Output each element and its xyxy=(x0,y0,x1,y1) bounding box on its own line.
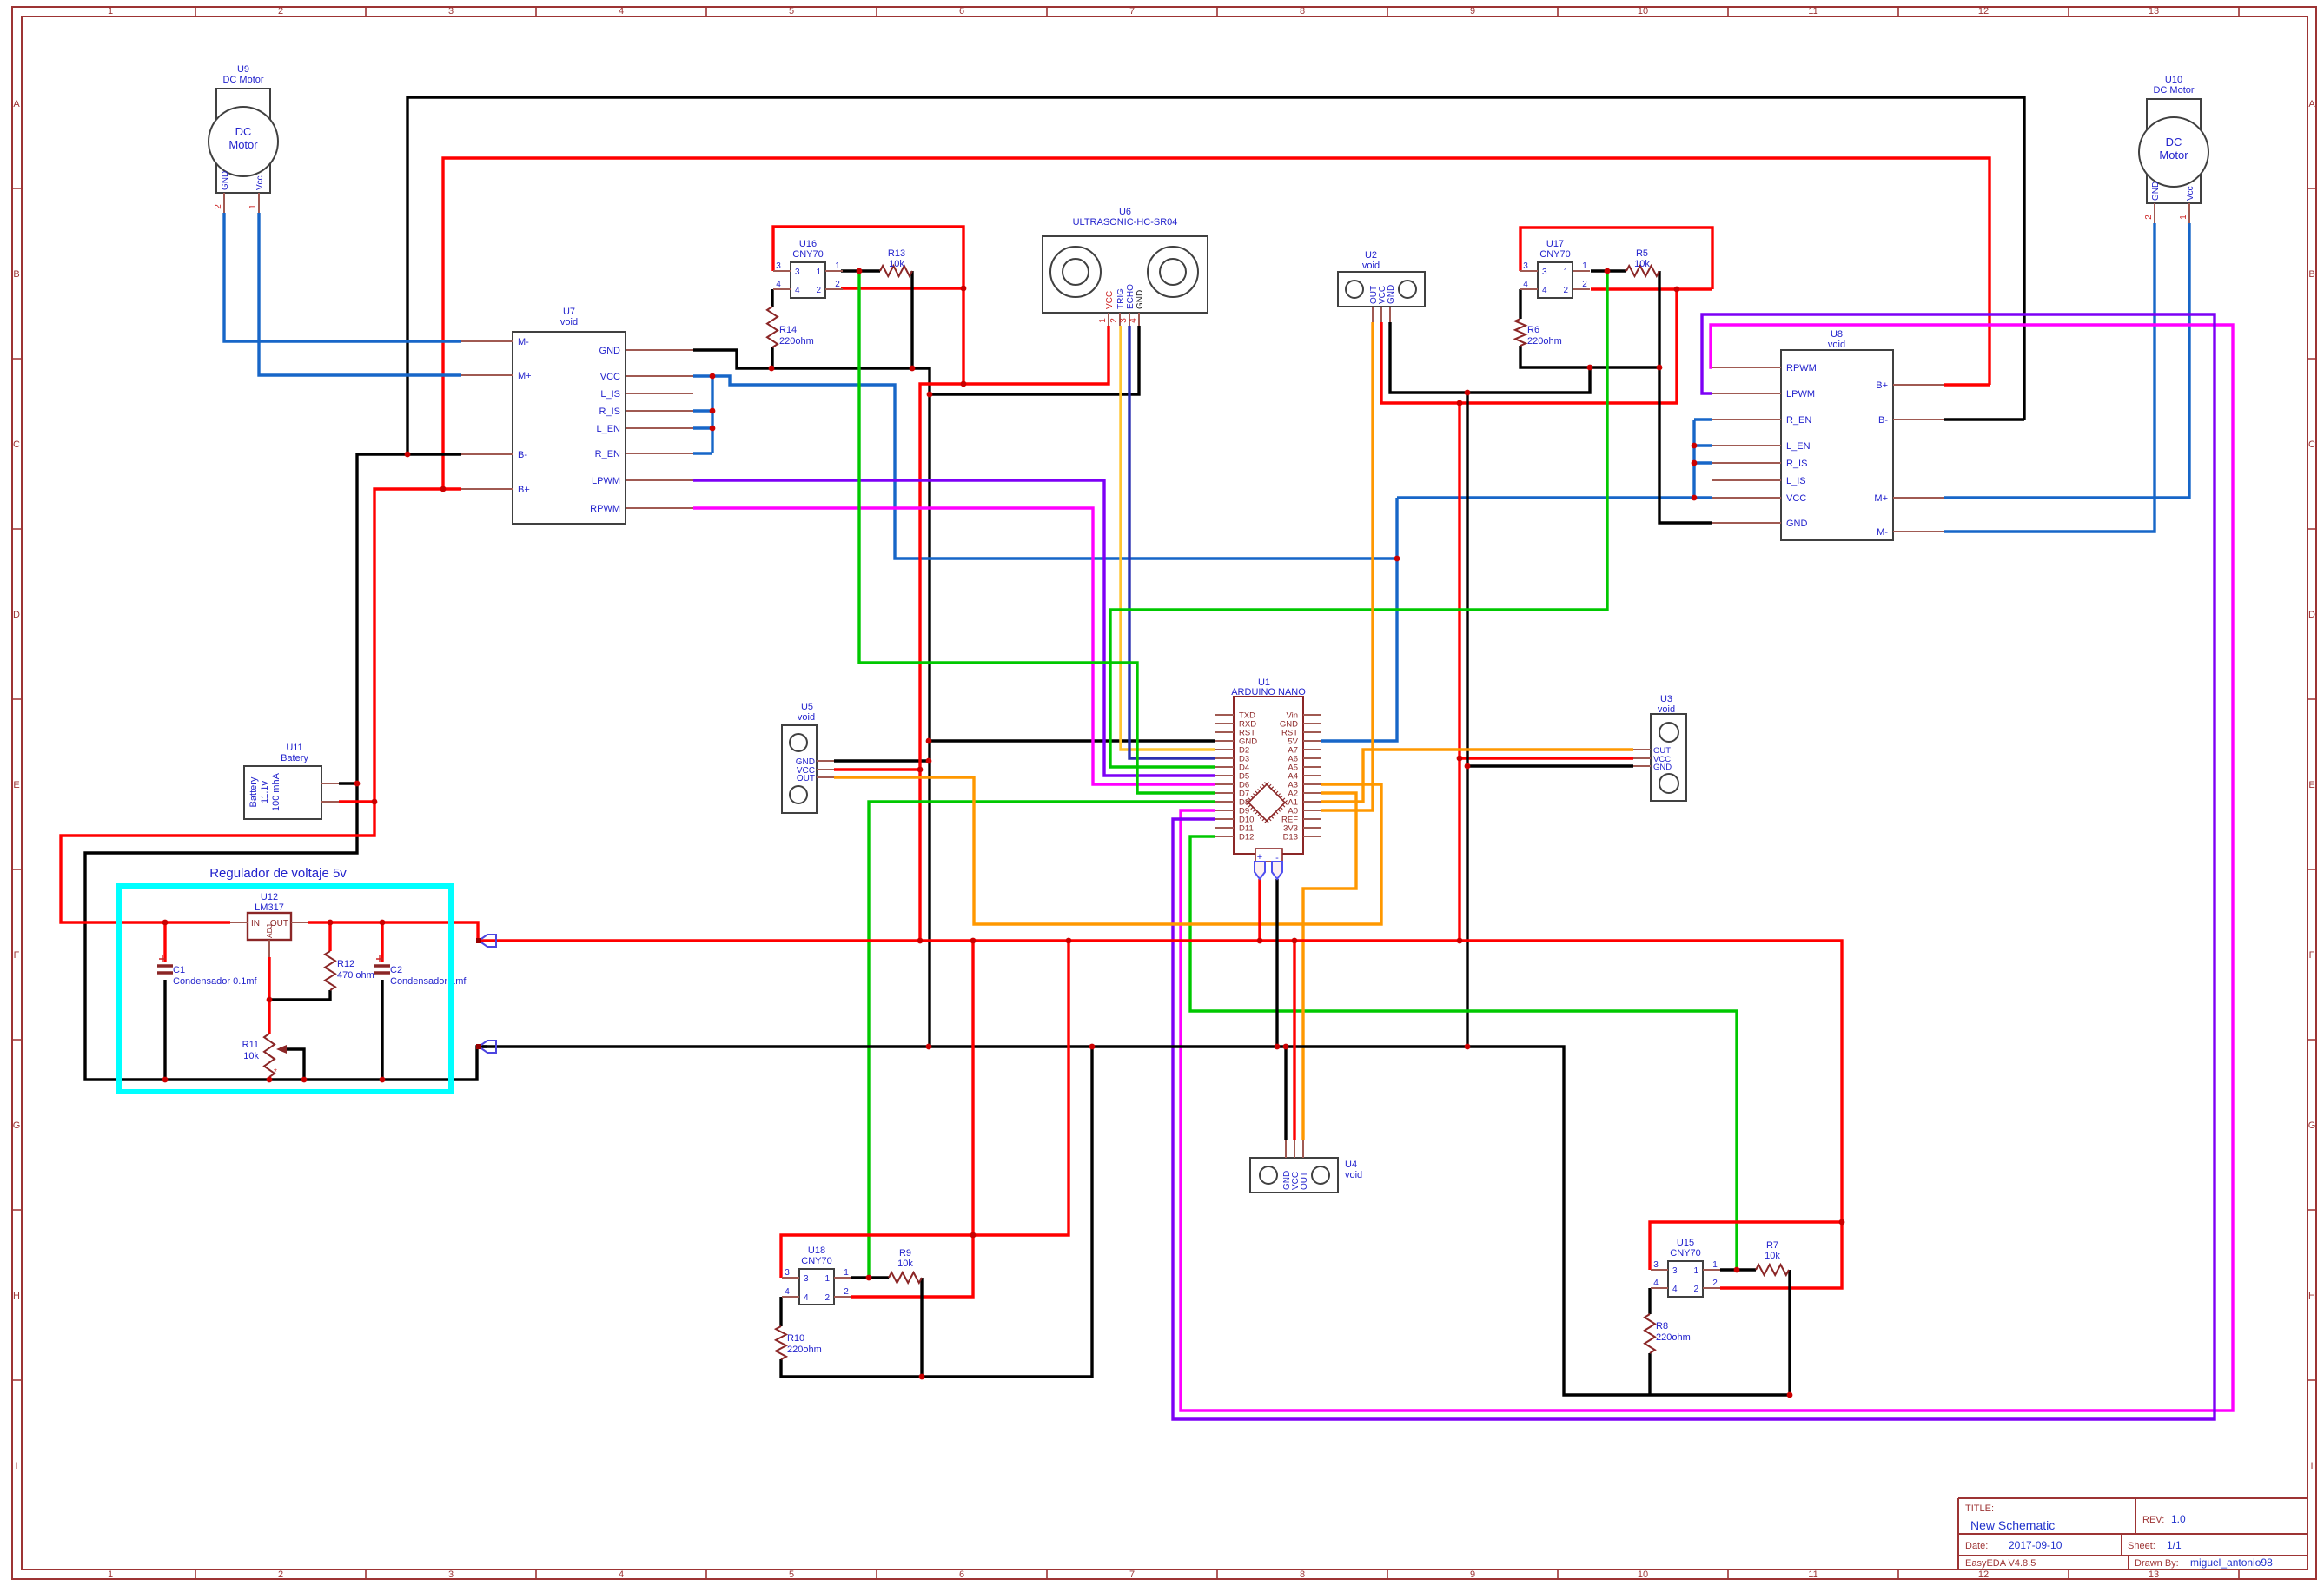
svg-text:4: 4 xyxy=(776,280,781,289)
dc motor U9 xyxy=(209,64,278,213)
svg-text:Vcc: Vcc xyxy=(2186,186,2195,201)
resistor R6 220ohm xyxy=(1515,319,1562,347)
wire U3 GND xyxy=(1467,764,1633,767)
svg-text:R13: R13 xyxy=(888,248,905,259)
svg-text:12: 12 xyxy=(1978,1569,1989,1580)
junction at 1930,333 xyxy=(1674,287,1680,293)
svg-text:R12: R12 xyxy=(337,959,354,969)
svg-text:10k: 10k xyxy=(889,259,904,269)
svg-text:RPWM: RPWM xyxy=(590,504,620,514)
svg-text:9: 9 xyxy=(1470,1569,1475,1580)
svg-text:B: B xyxy=(13,269,19,280)
svg-text:U12: U12 xyxy=(261,892,278,902)
svg-text:10k: 10k xyxy=(243,1051,259,1061)
svg-text:void: void xyxy=(1658,704,1675,715)
voltage regulator U12 LM317 xyxy=(230,892,308,957)
svg-text:R_EN: R_EN xyxy=(595,449,620,459)
junction at 820,493 xyxy=(710,426,716,432)
svg-text:CNY70: CNY70 xyxy=(1539,249,1570,260)
svg-text:U3: U3 xyxy=(1660,694,1672,704)
svg-text:void: void xyxy=(1828,340,1845,350)
wire LM317 OUT to 5V rail through port xyxy=(308,922,1842,1288)
svg-text:11: 11 xyxy=(1808,6,1817,17)
svg-text:2: 2 xyxy=(1109,318,1119,323)
svg-text:GND: GND xyxy=(1653,763,1672,772)
svg-text:U6: U6 xyxy=(1119,207,1131,217)
svg-text:R_IS: R_IS xyxy=(599,406,620,417)
wire TRIG to D2 xyxy=(1121,326,1215,750)
line sensor U4 xyxy=(1250,1140,1362,1193)
svg-text:D13: D13 xyxy=(1283,833,1298,843)
junction at 1910,423 xyxy=(1657,365,1663,371)
svg-text:void: void xyxy=(798,712,815,723)
svg-text:2: 2 xyxy=(278,1569,283,1580)
svg-text:1: 1 xyxy=(248,204,258,209)
junction at 1608,643 xyxy=(1394,556,1400,562)
junction at 1689,452 xyxy=(1465,390,1471,396)
svg-text:VCC: VCC xyxy=(1105,291,1115,309)
svg-text:Condensador 1mf: Condensador 1mf xyxy=(390,976,467,987)
wire U17 red supply loop xyxy=(1520,228,1712,289)
svg-text:5: 5 xyxy=(789,6,794,17)
potentiometer R11 10k xyxy=(242,1034,304,1077)
wire green U15 to D12 xyxy=(1190,836,1737,1270)
wire R12 bottom to ADJ node xyxy=(269,990,330,1000)
svg-text:13: 13 xyxy=(2149,1569,2159,1580)
svg-text:CNY70: CNY70 xyxy=(792,249,823,260)
svg-text:470 ohm: 470 ohm xyxy=(337,970,374,981)
svg-text:LPWM: LPWM xyxy=(1786,389,1815,400)
svg-text:3: 3 xyxy=(1542,268,1547,277)
wire U7 VCC blue bus ties (R_IS L_EN R_EN) xyxy=(693,376,712,453)
svg-text:DC Motor: DC Motor xyxy=(222,75,263,85)
svg-text:1: 1 xyxy=(1712,1260,1718,1270)
svg-text:L_IS: L_IS xyxy=(600,389,620,400)
junction at 1480,1205 xyxy=(1283,1044,1289,1050)
wire R10 leads and U18 ground to GND rail xyxy=(781,1047,1092,1377)
junction at 1059,1083 xyxy=(917,938,924,944)
svg-text:1: 1 xyxy=(816,268,821,277)
wire U8 B- jog xyxy=(1944,418,2024,420)
svg-text:U15: U15 xyxy=(1677,1238,1694,1248)
wire U16 pin2 to supply xyxy=(841,287,963,289)
svg-text:12: 12 xyxy=(1978,6,1989,17)
svg-text:11.1v: 11.1v xyxy=(260,780,270,803)
wire U8 VCC blue bus ties (R_EN L_EN R_IS) xyxy=(1694,420,1712,498)
svg-text:LPWM: LPWM xyxy=(592,476,620,486)
svg-text:U4: U4 xyxy=(1345,1160,1357,1170)
junction at 310,1151 xyxy=(267,997,273,1003)
wire R5 node xyxy=(1591,269,1626,272)
junction at 350,1243 xyxy=(301,1077,308,1083)
wire R12 top lead xyxy=(328,922,331,951)
svg-text:U16: U16 xyxy=(799,239,817,249)
svg-text:1: 1 xyxy=(1563,268,1568,277)
svg-text:220ohm: 220ohm xyxy=(1527,336,1562,347)
junction at 1059,886 xyxy=(917,767,924,773)
net port 5V output xyxy=(476,935,496,947)
svg-text:DC: DC xyxy=(235,125,252,138)
microcontroller U1 ARDUINO NANO xyxy=(1215,677,1321,879)
wire U4 GND drop xyxy=(1284,1047,1287,1140)
svg-text:1: 1 xyxy=(1582,261,1587,271)
svg-text:1: 1 xyxy=(1098,318,1108,323)
junction at 411,902 xyxy=(354,781,361,787)
svg-text:3: 3 xyxy=(1119,318,1129,323)
junction at 888,424 xyxy=(769,366,775,372)
svg-text:GND: GND xyxy=(1387,285,1396,304)
svg-text:EasyEDA V4.8.5: EasyEDA V4.8.5 xyxy=(1965,1558,2036,1569)
wire orange U2 OUT to A0 xyxy=(1321,322,1373,810)
wire orange A2 to U4 OUT xyxy=(1303,793,1356,1140)
wire U15 red supply loop xyxy=(1650,1222,1842,1270)
junction at 190,1243 xyxy=(162,1077,169,1083)
svg-text:10: 10 xyxy=(1638,1569,1648,1580)
wire R14 leads xyxy=(771,289,773,368)
svg-text:100 mhA: 100 mhA xyxy=(271,772,281,811)
wire M- U8 to U10 xyxy=(1944,223,2155,532)
wire U3 VCC xyxy=(1460,757,1633,759)
svg-text:2: 2 xyxy=(824,1293,830,1303)
optocoupler U18 (CNY70) xyxy=(782,1246,851,1305)
svg-text:DC: DC xyxy=(2166,135,2182,149)
wire red top rail (U7 B+ to U8 B+) xyxy=(443,158,1990,489)
svg-text:A: A xyxy=(2308,99,2315,109)
svg-text:1: 1 xyxy=(835,261,840,271)
svg-text:D: D xyxy=(2308,610,2315,620)
svg-text:VCC: VCC xyxy=(1786,493,1806,504)
junction at 1061,1585 xyxy=(919,1374,925,1380)
junction at 1109,332 xyxy=(961,286,967,292)
svg-text:ADJ: ADJ xyxy=(265,924,274,938)
resistor R10 220ohm xyxy=(776,1326,822,1359)
svg-text:2: 2 xyxy=(816,286,821,295)
svg-text:U17: U17 xyxy=(1546,239,1564,249)
svg-text:ECHO: ECHO xyxy=(1126,284,1136,309)
svg-text:2: 2 xyxy=(1563,286,1568,295)
junction at 1230,1083 xyxy=(1066,938,1072,944)
svg-text:4: 4 xyxy=(804,1293,809,1303)
svg-text:B+: B+ xyxy=(1876,380,1888,391)
wire GND rail (port to U15 ground) xyxy=(479,1047,1790,1395)
junction at 1069,853 xyxy=(926,738,932,744)
svg-text:OUT: OUT xyxy=(797,774,815,783)
svg-text:E: E xyxy=(13,780,19,790)
svg-text:D: D xyxy=(13,610,20,620)
svg-text:ULTRASONIC-HC-SR04: ULTRASONIC-HC-SR04 xyxy=(1073,217,1178,228)
svg-text:GND: GND xyxy=(1786,519,1808,529)
svg-text:8: 8 xyxy=(1300,6,1305,17)
svg-text:2: 2 xyxy=(1582,280,1587,289)
svg-text:M+: M+ xyxy=(1874,493,1888,504)
junction at 1680,873 xyxy=(1457,756,1463,762)
wire Arduino battery - to GND rail xyxy=(1275,879,1278,1047)
svg-text:R11: R11 xyxy=(242,1040,259,1050)
wire U17 pin2 to supply xyxy=(1591,287,1712,290)
svg-text:H: H xyxy=(13,1291,20,1301)
junction at 469,523 xyxy=(405,452,411,458)
junction at 1999,1462 xyxy=(1734,1267,1740,1273)
wire U4 VCC drop xyxy=(1293,941,1295,1140)
junction at 820,473 xyxy=(710,408,716,414)
junction at 380,1062 xyxy=(328,920,334,926)
junction at 1109,442 xyxy=(961,381,967,387)
svg-text:3: 3 xyxy=(448,6,454,17)
junction at 1257,1205 xyxy=(1089,1044,1096,1050)
svg-text:9: 9 xyxy=(1470,6,1475,17)
junction at 1689,1205 xyxy=(1465,1044,1471,1050)
wire battery + tap xyxy=(339,800,374,803)
svg-text:8: 8 xyxy=(1300,1569,1305,1580)
junction at 1830,423 xyxy=(1587,365,1593,371)
svg-text:R10: R10 xyxy=(787,1333,804,1344)
wire U8 B+ jog xyxy=(1944,383,1990,386)
wire R13 to ground rail xyxy=(910,271,913,368)
optocoupler U17 (CNY70) xyxy=(1520,239,1590,298)
svg-text:4: 4 xyxy=(1542,286,1547,295)
wire R11 bottom lead xyxy=(268,1077,270,1080)
wire R11 wiper to ground rail xyxy=(280,1049,304,1080)
svg-text:R_IS: R_IS xyxy=(1786,459,1807,469)
wire Arduino battery + to 5V rail xyxy=(1258,879,1261,941)
wire C1 bottom lead xyxy=(163,980,166,1080)
junction at 1470,1205 xyxy=(1275,1044,1281,1050)
wire C2 top lead xyxy=(381,922,383,962)
svg-text:2: 2 xyxy=(844,1287,849,1297)
svg-text:U10: U10 xyxy=(2165,75,2182,85)
optocoupler U16 (CNY70) xyxy=(773,239,843,298)
wire ECHO to D3 xyxy=(1129,326,1215,758)
wire M+ U8 to U10 xyxy=(1944,223,2189,498)
svg-text:R_EN: R_EN xyxy=(1786,415,1811,426)
svg-text:void: void xyxy=(1345,1170,1362,1180)
svg-text:3: 3 xyxy=(448,1569,454,1580)
svg-text:1: 1 xyxy=(1693,1266,1698,1276)
wire violet U8 LPWM loop to D10 xyxy=(1173,314,2215,1419)
svg-text:13: 13 xyxy=(2149,6,2159,17)
svg-text:2017-09-10: 2017-09-10 xyxy=(2009,1539,2062,1551)
svg-text:4: 4 xyxy=(785,1287,790,1297)
battery U11 xyxy=(244,743,339,819)
junction at 1070,454 xyxy=(927,392,933,398)
line sensor U2 xyxy=(1338,250,1425,322)
wire U16 red supply loop xyxy=(773,227,963,384)
svg-text:220ohm: 220ohm xyxy=(1656,1332,1691,1343)
svg-text:REV:: REV: xyxy=(2142,1515,2164,1525)
svg-text:2: 2 xyxy=(1693,1285,1698,1294)
svg-text:1.0: 1.0 xyxy=(2171,1513,2186,1525)
wire green U18 to D8 xyxy=(869,802,1215,1278)
svg-text:I: I xyxy=(15,1461,17,1471)
svg-text:B: B xyxy=(2308,269,2314,280)
svg-text:Vcc: Vcc xyxy=(255,175,265,190)
svg-text:Date:: Date: xyxy=(1965,1541,1988,1551)
wire R9 to U18 ground loop xyxy=(920,1278,923,1377)
wire R7 node xyxy=(1720,1268,1756,1271)
svg-text:Condensador 0.1mf: Condensador 0.1mf xyxy=(173,976,258,987)
svg-text:3: 3 xyxy=(776,261,781,271)
svg-text:U8: U8 xyxy=(1831,329,1843,340)
svg-text:Motor: Motor xyxy=(228,138,258,151)
svg-text:R7: R7 xyxy=(1766,1240,1778,1251)
svg-text:G: G xyxy=(2308,1120,2316,1131)
svg-text:6: 6 xyxy=(959,6,964,17)
resistor R12 470 ohm xyxy=(325,951,374,990)
svg-text:L_IS: L_IS xyxy=(1786,476,1806,486)
svg-text:H: H xyxy=(2308,1291,2315,1301)
svg-text:220ohm: 220ohm xyxy=(779,336,814,347)
svg-text:4: 4 xyxy=(619,6,624,17)
svg-text:*: * xyxy=(274,1067,277,1077)
svg-text:R5: R5 xyxy=(1636,248,1648,259)
svg-text:IN: IN xyxy=(251,919,260,928)
svg-text:C2: C2 xyxy=(390,965,402,975)
wire violet LPWM U7 to D5 xyxy=(693,480,1215,776)
svg-text:4: 4 xyxy=(1653,1279,1659,1288)
svg-text:B-: B- xyxy=(1878,415,1888,426)
wire R9 node xyxy=(851,1276,889,1279)
svg-text:ARDUINO NANO: ARDUINO NANO xyxy=(1231,687,1306,697)
svg-text:New Schematic: New Schematic xyxy=(1970,1518,2055,1532)
junction at 310,1243 xyxy=(267,1077,273,1083)
resistor R5 10k xyxy=(1626,248,1659,276)
svg-text:G: G xyxy=(13,1120,21,1131)
junction at 440,1243 xyxy=(380,1077,386,1083)
wire magenta RPWM U7 to D6 xyxy=(693,508,1215,784)
svg-text:C: C xyxy=(2308,439,2315,450)
svg-text:7: 7 xyxy=(1129,6,1135,17)
svg-text:4: 4 xyxy=(1672,1285,1678,1294)
junction at 1050,424 xyxy=(910,366,916,372)
junction at 190,1062 xyxy=(162,920,169,926)
svg-text:U5: U5 xyxy=(801,702,813,712)
svg-text:CNY70: CNY70 xyxy=(801,1256,831,1266)
svg-text:L_EN: L_EN xyxy=(596,424,620,434)
regulator highlight box (cyan) xyxy=(119,886,451,1092)
wire U18 red supply loop xyxy=(781,941,1069,1278)
svg-text:Drawn By:: Drawn By: xyxy=(2135,1558,2179,1569)
svg-text:void: void xyxy=(1362,261,1380,271)
svg-text:4: 4 xyxy=(795,286,800,295)
svg-text:Batery: Batery xyxy=(281,753,308,763)
svg-text:3: 3 xyxy=(1672,1266,1678,1276)
svg-text:D12: D12 xyxy=(1239,833,1254,843)
junction at 1069,1205 xyxy=(926,1044,932,1050)
resistor R13 10k xyxy=(880,248,912,276)
capacitor C1 0.1mf xyxy=(157,955,258,987)
junction at 1450,1083 xyxy=(1257,938,1263,944)
junction at 1689,882 xyxy=(1465,763,1471,770)
title block xyxy=(1958,1498,2307,1569)
svg-text:10k: 10k xyxy=(1765,1251,1780,1261)
svg-text:F: F xyxy=(2309,950,2315,961)
svg-text:2: 2 xyxy=(2144,215,2154,220)
wire M+ U9 to U7 xyxy=(259,213,461,375)
motor driver U8 xyxy=(1712,329,1944,540)
wire R7 to U15 ground loop xyxy=(1788,1270,1791,1395)
wire green U16 to D7 xyxy=(859,271,1215,793)
junction at 1850,312 xyxy=(1605,268,1611,274)
svg-text:3: 3 xyxy=(1653,1260,1659,1270)
svg-text:2: 2 xyxy=(1712,1279,1718,1288)
junction at 1000,1471 xyxy=(866,1275,872,1281)
svg-text:11: 11 xyxy=(1808,1569,1817,1580)
svg-text:4: 4 xyxy=(1129,318,1138,323)
wire orange A3 to U5 OUT xyxy=(834,777,1381,924)
wire orange A1 to U3 OUT xyxy=(1321,750,1633,802)
svg-text:1: 1 xyxy=(824,1274,830,1284)
junction at 1680,464 xyxy=(1457,400,1463,406)
junction at 510,563 xyxy=(440,486,447,492)
wire Arduino GND xyxy=(929,739,1215,742)
dc motor U10 xyxy=(2139,75,2208,223)
svg-text:3: 3 xyxy=(804,1274,809,1284)
svg-text:10k: 10k xyxy=(1634,259,1650,269)
wire U2 GND down and link xyxy=(1390,322,1590,393)
svg-text:1: 1 xyxy=(108,6,113,17)
wire 5V blue distribution (U7 VCC to Arduino 5V and U8 VCC) xyxy=(712,376,1694,741)
net port GND output xyxy=(476,1041,496,1053)
line sensor U5 xyxy=(782,702,834,813)
svg-text:GND: GND xyxy=(1136,290,1145,309)
svg-text:B+: B+ xyxy=(518,485,530,495)
svg-text:1: 1 xyxy=(108,1569,113,1580)
svg-text:5: 5 xyxy=(789,1569,794,1580)
svg-text:2: 2 xyxy=(835,280,840,289)
capacitor C2 1mf xyxy=(374,955,467,987)
wire GND vertical right (to U3 GND and GND rail) xyxy=(1466,393,1468,1047)
svg-text:6: 6 xyxy=(959,1569,964,1580)
junction at 440,1062 xyxy=(380,920,386,926)
wire U5 GND xyxy=(834,759,929,762)
junction at 2060,1606 xyxy=(1787,1392,1793,1398)
wire R13 node xyxy=(841,269,880,272)
optocoupler U15 (CNY70) xyxy=(1651,1238,1720,1297)
wire VCC vertical right (to U3 VCC and 5V rail) xyxy=(1458,403,1460,941)
wire LM317 ADJ to R11 xyxy=(268,957,270,1034)
svg-text:M-: M- xyxy=(518,337,529,347)
svg-text:4: 4 xyxy=(619,1569,624,1580)
junction at 1120,1083 xyxy=(970,938,977,944)
resistor R8 220ohm xyxy=(1645,1314,1691,1353)
wire B- from U7 to battery GND and regulator ground xyxy=(85,454,487,1080)
wire R6 leads and ground link xyxy=(1520,289,1659,367)
svg-text:7: 7 xyxy=(1129,1569,1135,1580)
svg-text:Motor: Motor xyxy=(2159,149,2188,162)
svg-text:B-: B- xyxy=(518,450,527,460)
svg-text:I: I xyxy=(2310,1461,2313,1471)
svg-text:M-: M- xyxy=(1877,527,1888,538)
wire U2 VCC to supply rail xyxy=(1381,289,1677,403)
svg-text:C: C xyxy=(13,439,20,450)
junction at 1950,533 xyxy=(1692,460,1698,466)
svg-text:TRIG: TRIG xyxy=(1116,288,1126,309)
svg-text:3: 3 xyxy=(795,268,800,277)
junction at 431,923 xyxy=(372,799,378,805)
svg-text:E: E xyxy=(2308,780,2314,790)
wire U7 GND net to U6 GND and Arduino GND xyxy=(693,350,930,1047)
junction at 1680,1083 xyxy=(1457,938,1463,944)
line sensor U3 xyxy=(1633,694,1686,801)
svg-text:GND: GND xyxy=(599,346,621,356)
svg-text:miguel_antonio98: miguel_antonio98 xyxy=(2190,1556,2273,1569)
junction at 1069,876 xyxy=(926,758,932,764)
svg-text:R9: R9 xyxy=(899,1248,911,1259)
wire R8 leads xyxy=(1648,1288,1651,1395)
wire C1 top lead xyxy=(163,922,166,962)
wire magenta U8 RPWM loop to D9 xyxy=(1181,325,2233,1411)
svg-text:GND: GND xyxy=(221,171,230,190)
